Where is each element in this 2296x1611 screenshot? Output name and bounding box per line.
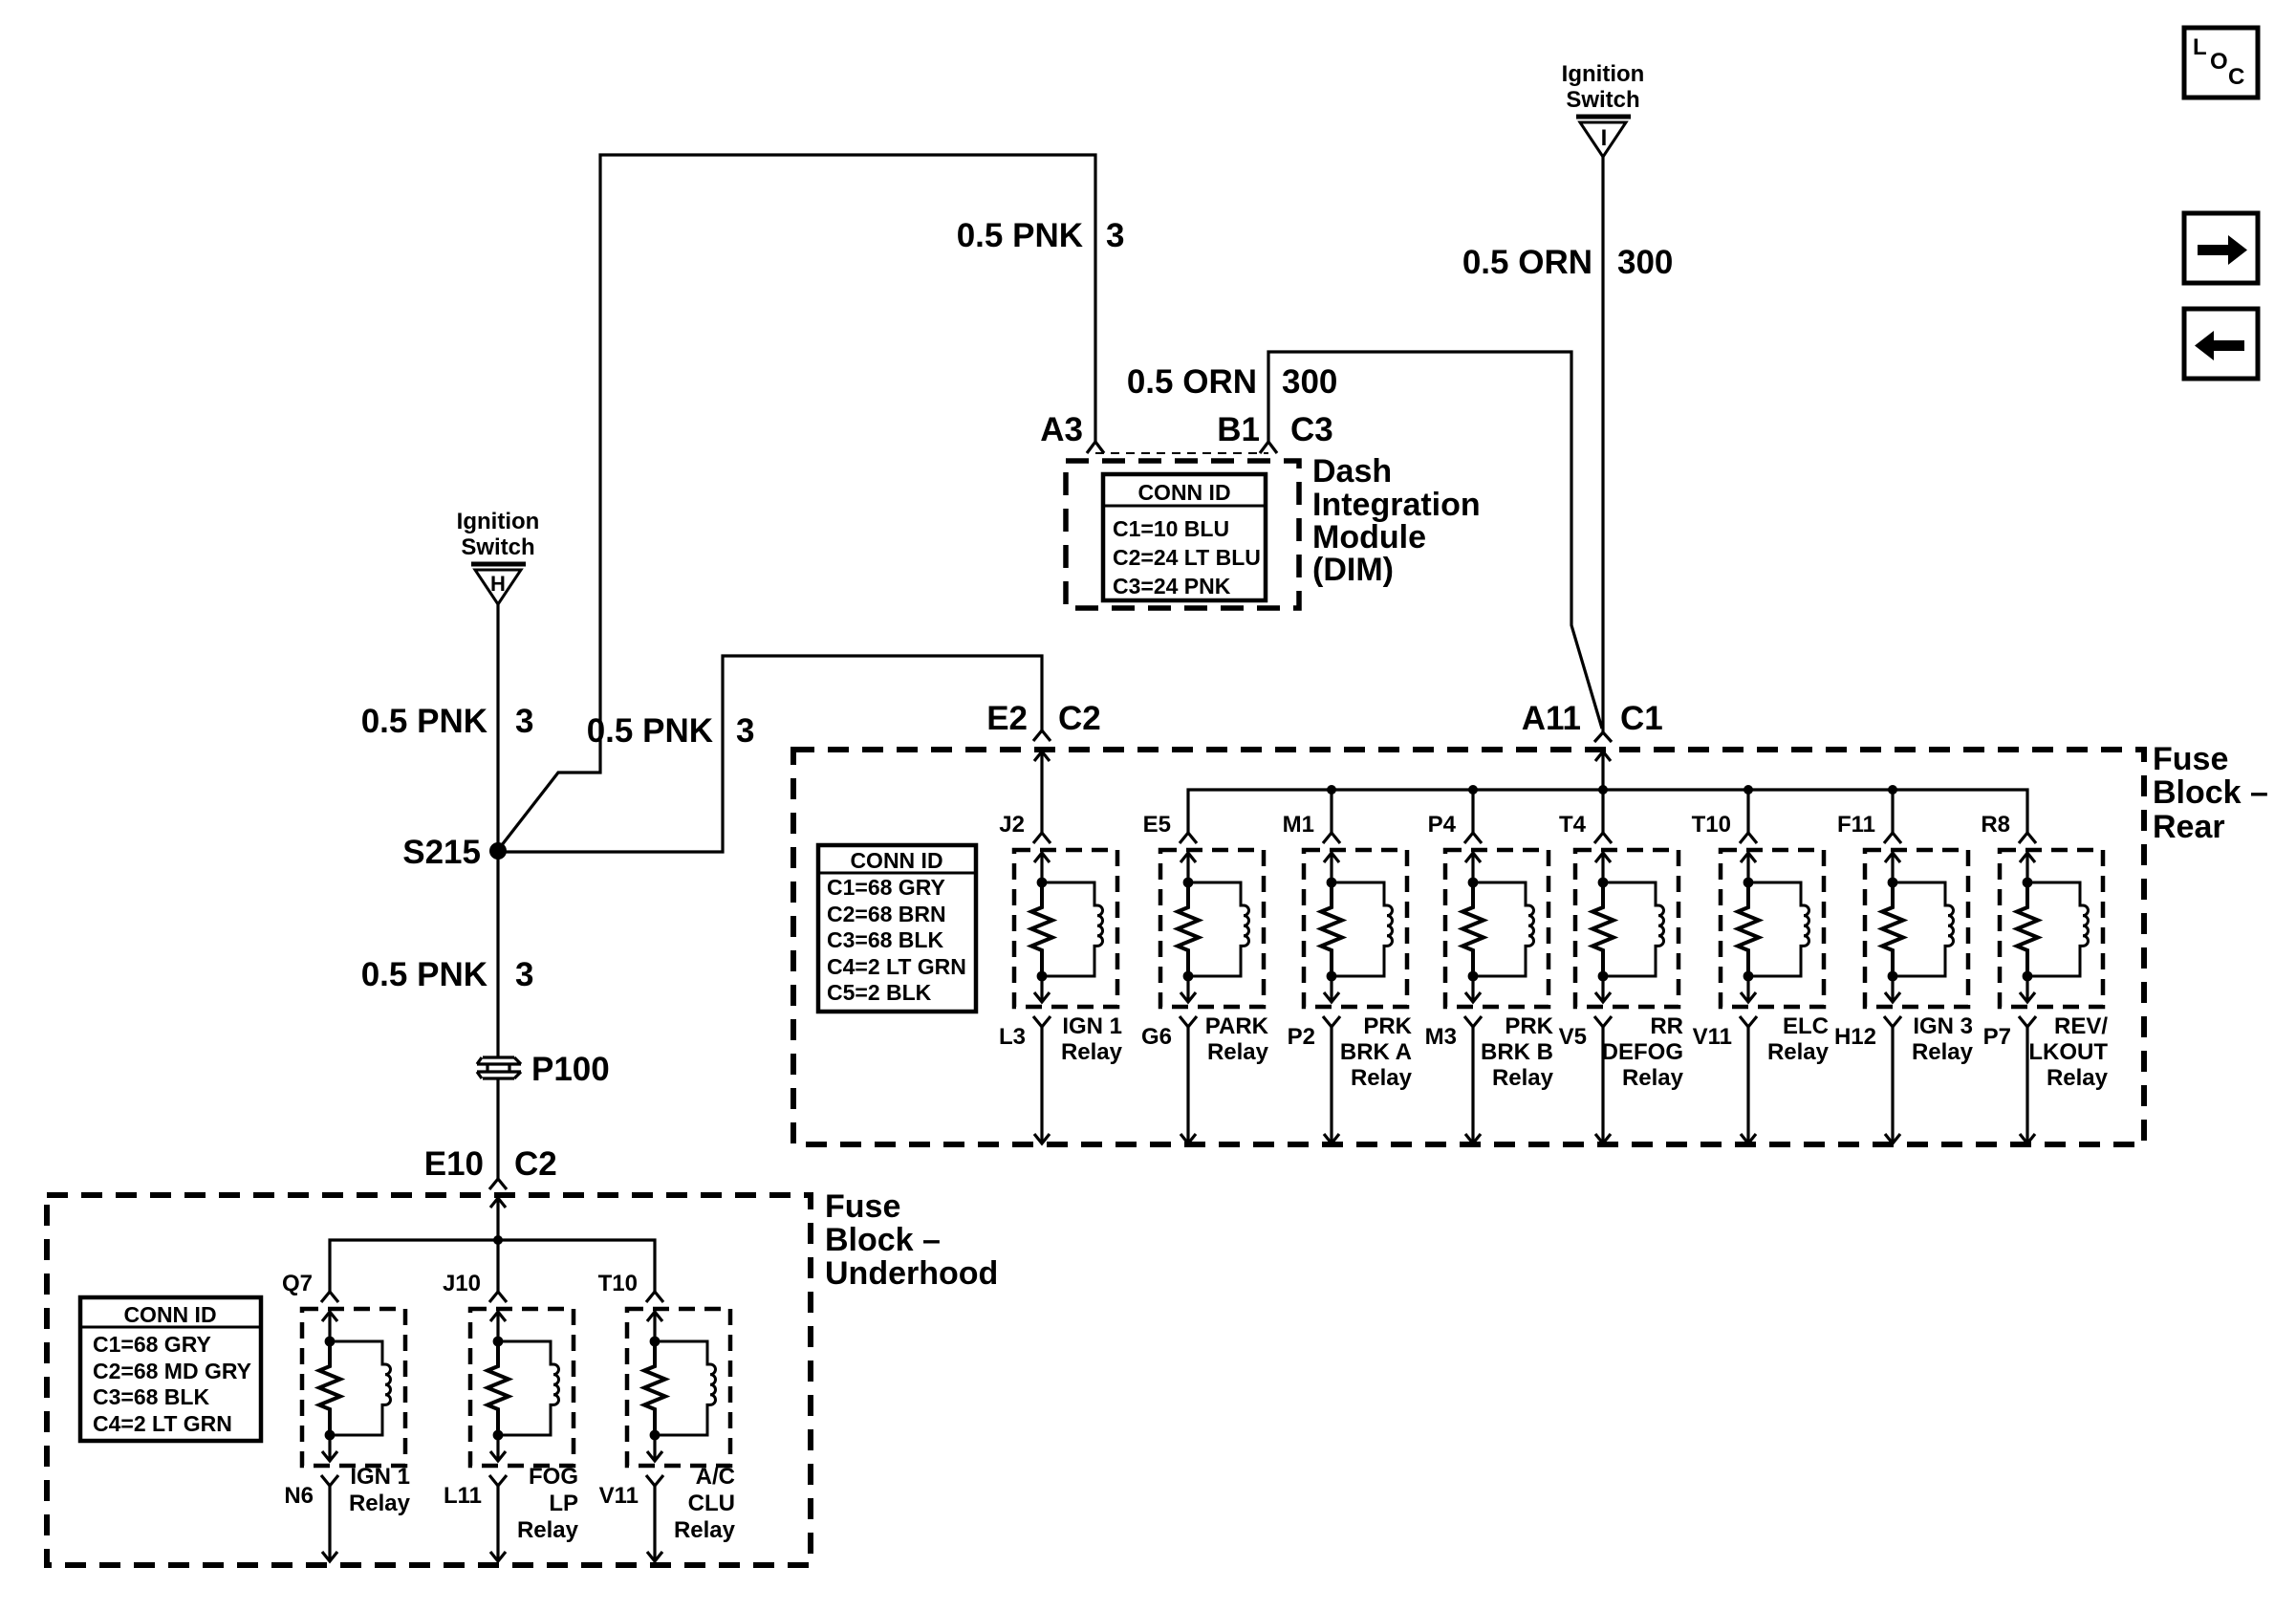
svg-text:C2=68 BRN: C2=68 BRN	[827, 902, 946, 926]
svg-text:C1: C1	[1620, 700, 1663, 737]
svg-text:300: 300	[1617, 244, 1673, 281]
svg-text:Relay: Relay	[674, 1517, 736, 1543]
label A/C CLU Relay	[674, 1464, 736, 1543]
grommet P100	[477, 1051, 610, 1088]
wire from P100 to E10	[496, 1078, 499, 1179]
svg-text:3: 3	[515, 703, 533, 740]
connector pin T10	[1740, 833, 1757, 843]
svg-text:T10: T10	[1692, 812, 1731, 838]
svg-text:J2: J2	[999, 812, 1025, 838]
wire A11 entry to bus	[1595, 751, 1611, 761]
fuse block rear name label	[2153, 741, 2268, 845]
svg-text:Module: Module	[1312, 519, 1426, 555]
wire 0.5 PNK 3 from S215 down to P100	[496, 851, 499, 1057]
svg-text:C: C	[2228, 64, 2244, 90]
connector pin T4	[1594, 833, 1612, 843]
svg-text:C3=68 BLK: C3=68 BLK	[93, 1384, 209, 1409]
connector pin Q7	[321, 1292, 338, 1302]
svg-text:C1=10 BLU: C1=10 BLU	[1113, 516, 1229, 541]
label PRK BRK B Relay	[1481, 1013, 1554, 1091]
svg-text:Relay: Relay	[1912, 1039, 1974, 1065]
svg-text:BRK B: BRK B	[1481, 1039, 1553, 1065]
svg-text:V5: V5	[1559, 1024, 1587, 1050]
svg-text:P2: P2	[1288, 1024, 1315, 1050]
label IGN 1 Relay	[349, 1464, 411, 1516]
svg-text:0.5 PNK: 0.5 PNK	[361, 956, 487, 993]
svg-text:Relay: Relay	[1207, 1039, 1269, 1065]
wire 0.5 ORN 300 from ignition switch I	[1601, 157, 1604, 732]
connector pin P2	[1323, 1016, 1340, 1027]
wire E2 entry to J2	[1034, 751, 1050, 761]
connector pin R8	[2019, 833, 2036, 843]
svg-text:H: H	[490, 572, 506, 596]
connector pin A11 C1 (fuse block rear)	[1594, 732, 1612, 742]
svg-text:Relay: Relay	[517, 1517, 579, 1543]
svg-text:Underhood: Underhood	[825, 1255, 998, 1292]
svg-text:C2: C2	[1058, 700, 1101, 737]
svg-text:Relay: Relay	[2047, 1065, 2109, 1091]
connector pin J2	[1033, 833, 1051, 843]
svg-text:S215: S215	[402, 834, 481, 871]
svg-text:Block –: Block –	[825, 1222, 941, 1258]
ignition switch I connector	[1562, 61, 1645, 157]
svg-text:L: L	[2193, 34, 2207, 60]
svg-text:Ignition: Ignition	[1562, 61, 1645, 87]
svg-text:A11: A11	[1522, 700, 1581, 737]
connector pin E10 C2 (fuse block underhood)	[489, 1179, 507, 1189]
svg-text:Relay: Relay	[349, 1491, 411, 1516]
nav arrow left box	[2184, 309, 2258, 379]
connector pin A3 (DIM)	[1087, 442, 1104, 453]
relay IGN 1 Relay (coil)	[1014, 850, 1117, 1007]
svg-text:0.5 PNK: 0.5 PNK	[587, 712, 713, 750]
DIM top thin dashed edge	[1095, 452, 1268, 454]
svg-text:C5=2 BLK: C5=2 BLK	[827, 980, 932, 1005]
connector pin E2 C2 (fuse block rear)	[1033, 730, 1051, 741]
svg-text:ELC: ELC	[1783, 1013, 1829, 1039]
svg-text:Relay: Relay	[1061, 1039, 1123, 1065]
svg-text:L3: L3	[999, 1024, 1026, 1050]
connector pin J10	[489, 1292, 507, 1302]
fuse block rear dashed box	[793, 750, 2144, 1144]
fuse block rear CONN ID table	[818, 845, 976, 1012]
svg-text:A/C: A/C	[696, 1464, 735, 1490]
svg-text:Switch: Switch	[1566, 87, 1639, 113]
wire 0.5 PNK 3 from S215 to fuse block rear E2	[498, 656, 1042, 852]
svg-text:Fuse: Fuse	[825, 1188, 900, 1225]
DIM name label	[1312, 453, 1481, 588]
svg-text:PRK: PRK	[1505, 1013, 1553, 1039]
svg-text:P4: P4	[1428, 812, 1457, 838]
svg-text:3: 3	[736, 712, 754, 750]
svg-text:0.5 ORN: 0.5 ORN	[1462, 244, 1592, 281]
svg-text:H12: H12	[1834, 1024, 1876, 1050]
svg-text:C3: C3	[1290, 411, 1333, 448]
svg-text:REV/: REV/	[2054, 1013, 2108, 1039]
connector pin T10	[646, 1292, 663, 1302]
connector pin N6	[321, 1475, 338, 1486]
connector pin L11	[489, 1475, 507, 1486]
svg-text:3: 3	[515, 956, 533, 993]
relay FOG LP Relay (coil)	[470, 1309, 574, 1466]
svg-text:C2=24 LT BLU: C2=24 LT BLU	[1113, 545, 1261, 570]
svg-text:F11: F11	[1837, 812, 1875, 838]
svg-text:V11: V11	[599, 1483, 639, 1509]
svg-text:3: 3	[1106, 217, 1124, 254]
svg-text:O: O	[2210, 49, 2228, 75]
svg-text:B1: B1	[1217, 411, 1260, 448]
LOC legend box	[2184, 28, 2258, 98]
bus junction at x=1541	[1468, 785, 1478, 795]
connector pin M1	[1323, 833, 1340, 843]
svg-text:E5: E5	[1143, 812, 1171, 838]
svg-text:Relay: Relay	[1622, 1065, 1684, 1091]
svg-text:Relay: Relay	[1767, 1039, 1830, 1065]
svg-text:FOG: FOG	[529, 1464, 578, 1490]
label IGN 3 Relay	[1912, 1013, 1974, 1065]
svg-text:C3=68 BLK: C3=68 BLK	[827, 927, 943, 952]
svg-text:Integration: Integration	[1312, 487, 1481, 523]
connector pin V11	[646, 1475, 663, 1486]
connector pin B1 C3 (DIM)	[1260, 442, 1277, 453]
relay PRK BRK B Relay (coil)	[1445, 850, 1549, 1007]
wire 0.5 PNK 3 from ignition switch H to S215	[496, 604, 499, 851]
bus junction at x=1393	[1327, 785, 1336, 795]
connector pin P4	[1464, 833, 1482, 843]
ignition switch H connector	[457, 509, 540, 604]
relay ELC Relay (coil)	[1721, 850, 1824, 1007]
label REV/ LKOUT Relay	[2028, 1013, 2108, 1091]
bus junction at x=1980	[1888, 785, 1897, 795]
svg-text:Dash: Dash	[1312, 453, 1392, 490]
relay PRK BRK A Relay (coil)	[1304, 850, 1407, 1007]
svg-text:C2=68 MD GRY: C2=68 MD GRY	[93, 1359, 251, 1383]
svg-text:M3: M3	[1425, 1024, 1457, 1050]
label RR DEFOG Relay	[1602, 1013, 1684, 1091]
svg-text:N6: N6	[284, 1483, 314, 1509]
connector pin V11	[1740, 1016, 1757, 1027]
fuse block underhood CONN ID table	[80, 1297, 261, 1441]
svg-text:300: 300	[1282, 363, 1337, 401]
svg-text:J10: J10	[443, 1271, 481, 1296]
svg-text:C3=24 PNK: C3=24 PNK	[1113, 574, 1231, 599]
svg-text:P7: P7	[1983, 1024, 2011, 1050]
relay IGN 3 Relay (coil)	[1865, 850, 1968, 1007]
svg-text:C1=68 GRY: C1=68 GRY	[827, 875, 945, 900]
connector pin H12	[1884, 1016, 1901, 1027]
svg-text:Block –: Block –	[2153, 774, 2268, 811]
connector pin L3	[1033, 1016, 1051, 1027]
svg-text:G6: G6	[1141, 1024, 1172, 1050]
svg-text:(DIM): (DIM)	[1312, 552, 1394, 588]
label PRK BRK A Relay	[1340, 1013, 1413, 1091]
relay RR DEFOG Relay (coil)	[1575, 850, 1679, 1007]
relay REV/ LKOUT Relay (coil)	[2000, 850, 2103, 1007]
label PARK Relay	[1205, 1013, 1269, 1065]
connector pin E5	[1180, 833, 1197, 843]
connector pin V5	[1594, 1016, 1612, 1027]
connector pin G6	[1180, 1016, 1197, 1027]
svg-text:E2: E2	[986, 700, 1028, 737]
wire 0.5 ORN 300 from DIM C3 to fuse block rear A11	[1268, 352, 1602, 729]
svg-text:Fuse: Fuse	[2153, 741, 2228, 777]
svg-text:Switch: Switch	[461, 534, 534, 560]
relay A/C CLU Relay (coil)	[627, 1309, 730, 1466]
svg-text:IGN 1: IGN 1	[1062, 1013, 1122, 1039]
svg-text:RR: RR	[1650, 1013, 1683, 1039]
svg-text:IGN 3: IGN 3	[1913, 1013, 1973, 1039]
svg-text:0.5 ORN: 0.5 ORN	[1127, 363, 1257, 401]
svg-text:I: I	[1601, 125, 1608, 151]
svg-text:0.5 PNK: 0.5 PNK	[957, 217, 1083, 254]
svg-text:PARK: PARK	[1205, 1013, 1269, 1039]
svg-text:T10: T10	[598, 1271, 638, 1296]
DIM CONN ID table	[1103, 474, 1266, 600]
node S215	[489, 842, 507, 860]
relay PARK Relay (coil)	[1160, 850, 1264, 1007]
svg-text:LKOUT: LKOUT	[2028, 1039, 2108, 1065]
nav arrow right box	[2184, 213, 2258, 283]
svg-text:Relay: Relay	[1351, 1065, 1413, 1091]
rear fuse block bus wire	[1188, 790, 2027, 833]
connector pin M3	[1464, 1016, 1482, 1027]
relay IGN 1 Relay (coil)	[302, 1309, 405, 1466]
svg-text:A3: A3	[1040, 411, 1083, 448]
bus junction at x=1829	[1744, 785, 1753, 795]
label ELC Relay	[1767, 1013, 1830, 1065]
svg-text:0.5 PNK: 0.5 PNK	[361, 703, 487, 740]
svg-text:CONN ID: CONN ID	[123, 1302, 216, 1327]
svg-text:DEFOG: DEFOG	[1602, 1039, 1683, 1065]
svg-text:C4=2 LT GRN: C4=2 LT GRN	[827, 954, 966, 979]
svg-text:C2: C2	[514, 1145, 557, 1183]
svg-text:BRK A: BRK A	[1340, 1039, 1412, 1065]
svg-text:CONN ID: CONN ID	[850, 848, 942, 873]
svg-text:Relay: Relay	[1492, 1065, 1554, 1091]
underhood bus wire	[330, 1240, 655, 1292]
wire E10 entry to bus	[490, 1198, 506, 1208]
svg-text:R8: R8	[1981, 812, 2010, 838]
svg-text:CONN ID: CONN ID	[1137, 480, 1230, 505]
svg-text:IGN 1: IGN 1	[350, 1464, 410, 1490]
connector pin P7	[2019, 1016, 2036, 1027]
svg-text:PRK: PRK	[1363, 1013, 1412, 1039]
svg-text:T4: T4	[1559, 812, 1587, 838]
label IGN 1 Relay	[1061, 1013, 1123, 1065]
svg-text:Rear: Rear	[2153, 809, 2225, 845]
svg-text:E10: E10	[424, 1145, 484, 1183]
svg-text:LP: LP	[549, 1491, 578, 1516]
svg-text:C4=2 LT GRN: C4=2 LT GRN	[93, 1411, 232, 1436]
svg-text:L11: L11	[444, 1483, 482, 1509]
fuse block underhood name label	[825, 1188, 998, 1292]
svg-text:CLU: CLU	[688, 1491, 735, 1516]
wire 0.5 PNK 3 loop from S215 up to DIM A3	[498, 155, 1095, 850]
svg-text:Ignition: Ignition	[457, 509, 540, 534]
svg-text:P100: P100	[531, 1051, 610, 1088]
connector pin F11	[1884, 833, 1901, 843]
dash integration module DIM dashed box	[1066, 461, 1299, 608]
svg-text:M1: M1	[1283, 812, 1314, 838]
svg-text:V11: V11	[1693, 1024, 1732, 1050]
label FOG LP Relay	[517, 1464, 579, 1543]
bus junction at x=521	[493, 1235, 503, 1245]
svg-text:C1=68 GRY: C1=68 GRY	[93, 1332, 211, 1357]
fuse block underhood dashed box	[47, 1195, 811, 1565]
svg-text:Q7: Q7	[282, 1271, 313, 1296]
